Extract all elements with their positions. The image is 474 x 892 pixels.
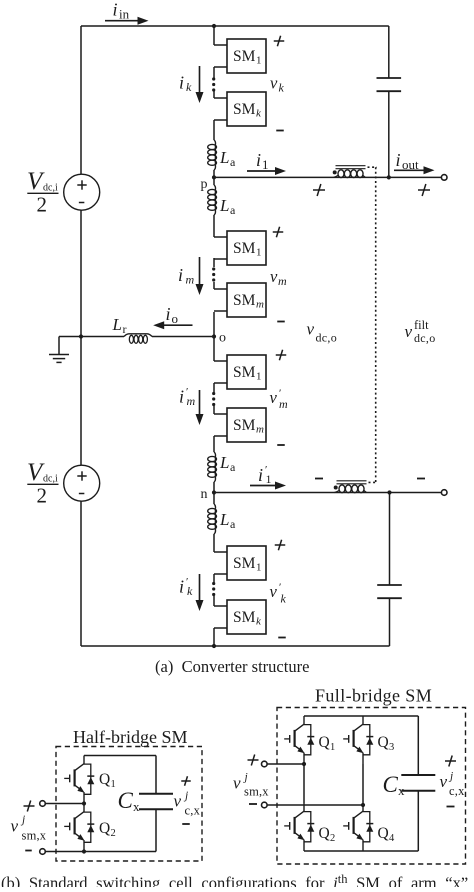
svg-text:v: v (405, 322, 413, 341)
svg-text:v: v (11, 817, 19, 836)
svg-text:v: v (440, 772, 448, 791)
svg-text:o: o (219, 331, 226, 346)
label + fb in (248, 755, 259, 766)
label + hb in (24, 801, 35, 812)
wire p rail (214, 176, 442, 178)
svg-text:in: in (119, 7, 130, 22)
submodule SM_1 arm3 (214, 355, 266, 389)
label + arm3 (276, 350, 287, 361)
inductor L_a arm2 (208, 185, 217, 215)
capacitor C_x fb (401, 775, 435, 791)
dots arm2 (212, 267, 215, 281)
svg-text:v: v (270, 267, 278, 286)
coupled filter inductor top (333, 166, 366, 178)
node fb leg1 junction (302, 762, 306, 766)
svg-text:3: 3 (389, 742, 394, 753)
svg-text:L: L (219, 148, 229, 167)
label Half-bridge SM (73, 727, 187, 747)
node n-rail capacitor junction (387, 490, 391, 494)
svg-text:i: i (258, 465, 263, 485)
submodule SM_1 arm4 (214, 546, 266, 580)
svg-text:v: v (233, 774, 241, 793)
svg-text:Q: Q (99, 771, 110, 788)
svg-text:a: a (230, 460, 236, 474)
svg-text:p: p (201, 177, 208, 192)
coupled filter inductor bottom (334, 481, 367, 493)
ground (49, 337, 69, 363)
label v_cx fb (440, 771, 466, 799)
svg-text:1: 1 (256, 561, 262, 573)
svg-text:m: m (187, 394, 196, 408)
svg-text:m: m (278, 274, 287, 288)
submodule SM_k arm p-top (214, 92, 266, 126)
wire cap branch bottom (389, 493, 391, 647)
label + hb cap (181, 776, 191, 786)
label Q3 fb (378, 734, 395, 753)
svg-text:n: n (201, 487, 208, 502)
label Q2 fb (319, 825, 336, 844)
label + vdco top (313, 184, 325, 196)
label - hb in (25, 850, 32, 852)
node n (201, 487, 217, 502)
label Q1 fb (319, 734, 336, 753)
inductor L_a arm1 (208, 140, 217, 170)
svg-text:SM: SM (233, 609, 256, 626)
inductor L_r (124, 334, 152, 344)
svg-text:1: 1 (262, 157, 269, 172)
svg-text:i: i (396, 150, 401, 170)
label - arm4 (278, 637, 286, 639)
dashed box full-bridge (277, 708, 466, 865)
svg-text:L: L (219, 196, 229, 215)
wire n rail (214, 492, 442, 494)
svg-text:L: L (219, 510, 229, 529)
transistor Q4 full-bridge (343, 803, 373, 851)
label + arm2 (273, 227, 284, 238)
node o (212, 331, 226, 346)
current arrow i_1 (247, 150, 286, 175)
node p-rail capacitor junction (387, 175, 391, 179)
svg-text:i: i (256, 150, 261, 170)
svg-text:x: x (133, 799, 140, 814)
svg-text:o: o (172, 311, 179, 326)
dots arm1 (212, 77, 215, 91)
svg-text:a: a (230, 203, 236, 217)
label v_dc,o (307, 320, 338, 345)
node hb bottom junction (82, 849, 86, 853)
svg-text:SM: SM (233, 417, 256, 434)
wire o branch (59, 336, 214, 338)
current arrow i_k (179, 66, 204, 103)
svg-text:Q: Q (378, 825, 389, 842)
svg-text:2: 2 (330, 833, 335, 844)
svg-text:a: a (230, 155, 236, 169)
dashed link bottom core (369, 481, 378, 483)
svg-text:i: i (179, 73, 184, 93)
svg-text:a: a (230, 517, 236, 531)
svg-text:r: r (123, 322, 127, 336)
dashed line v_filt (375, 167, 377, 482)
wire arm4 bus (213, 493, 215, 647)
svg-text:SM: SM (233, 555, 256, 572)
wire left bus middle (80, 210, 82, 465)
current arrow i_m (178, 257, 204, 295)
wire fb minus terminal (267, 804, 363, 806)
current arrow i_out (394, 150, 435, 174)
label L_a arm2 (219, 196, 236, 217)
submodule SM_k arm4 (214, 600, 266, 634)
svg-text:i: i (113, 0, 118, 20)
svg-text:1: 1 (111, 779, 116, 790)
submodule SM_m arm3 (214, 408, 266, 442)
svg-text:1: 1 (266, 472, 272, 486)
svg-text:sm,x: sm,x (22, 829, 47, 843)
label L_a arm4 (219, 510, 236, 531)
transistor Q2 full-bridge (284, 803, 314, 851)
node bottom bus junction (212, 644, 216, 648)
label V_dc,i/2 upper (27, 168, 59, 217)
label v_m-prime (270, 388, 289, 412)
svg-text:m: m (256, 298, 264, 310)
label - arm1 (276, 130, 284, 132)
svg-text:Half-bridge SM: Half-bridge SM (73, 727, 187, 747)
submodule SM_1 arm2 (214, 231, 266, 265)
svg-text:k: k (187, 584, 193, 598)
svg-text:Q: Q (99, 820, 110, 837)
label Full-bridge SM (315, 686, 432, 706)
current arrow i_m-prime (179, 386, 204, 425)
label - vfilt bottom (417, 478, 425, 480)
label - arm3 (277, 444, 285, 446)
label C_x fb (383, 772, 406, 798)
svg-text:2: 2 (111, 828, 116, 839)
dashed box half-bridge (56, 747, 202, 862)
label + fb cap (445, 756, 456, 767)
label L_a arm1 (219, 148, 236, 169)
node ground junction (79, 334, 83, 338)
svg-text:sm,x: sm,x (244, 785, 269, 799)
svg-text:1: 1 (256, 54, 262, 66)
svg-text:v: v (270, 74, 278, 93)
label - fb in (249, 803, 257, 805)
capacitor C bottom (377, 585, 402, 598)
svg-text:Q: Q (319, 825, 330, 842)
svg-text:(a) Converter structure: (a) Converter structure (155, 657, 309, 676)
label - fb cap (447, 806, 455, 808)
wire bottom bus (81, 645, 390, 647)
source V_dc,i/2 upper (64, 174, 100, 210)
label Q1 hb (99, 771, 116, 790)
wire cap branch top (388, 26, 390, 177)
svg-text:SM: SM (233, 240, 256, 257)
label - hb cap (182, 823, 190, 825)
label L_a arm3 (219, 453, 236, 474)
svg-text:v: v (307, 320, 315, 339)
svg-text:1: 1 (256, 370, 262, 382)
label V_dc,i/2 lower (27, 459, 59, 508)
wire fb leg2 mid (362, 764, 364, 803)
terminal out top (441, 175, 447, 181)
wire fb cap branch (417, 716, 419, 851)
dashed link top core (368, 166, 378, 168)
svg-text:filt: filt (414, 318, 429, 332)
capacitor C_x hb (139, 794, 173, 810)
svg-text:v: v (174, 792, 182, 811)
transistor Q3 full-bridge (343, 716, 373, 764)
svg-text:1: 1 (330, 742, 335, 753)
svg-text:c,x: c,x (449, 784, 465, 798)
terminal out bottom (441, 490, 447, 496)
label + arm4 (275, 540, 286, 551)
terminal hb minus (40, 849, 46, 855)
submodule SM_1 arm p-top (214, 39, 266, 73)
label v_k-prime (270, 582, 287, 606)
capacitor C top (377, 78, 402, 91)
dots arm4 (212, 582, 215, 596)
submodule SM_m arm2 (214, 283, 266, 317)
wire hb mid rail (45, 803, 84, 805)
svg-text:L: L (112, 315, 122, 334)
node p (201, 175, 217, 192)
svg-text:x: x (398, 783, 405, 798)
wire left bus lower (80, 501, 82, 646)
wire fb plus terminal (267, 763, 304, 765)
wire left bus upper (80, 26, 82, 174)
svg-text:C: C (118, 788, 134, 813)
label v_m (270, 267, 287, 288)
svg-text:i: i (179, 577, 184, 597)
current arrow i_k-prime (179, 574, 204, 611)
svg-text:i: i (166, 304, 171, 324)
svg-text:L: L (219, 453, 229, 472)
label C_x hb (118, 788, 141, 814)
svg-text:i: i (179, 387, 184, 407)
svg-text:Q: Q (319, 734, 330, 751)
svg-text:dc,o: dc,o (316, 331, 338, 345)
svg-text:C: C (383, 772, 399, 797)
inductor L_a arm3 (208, 452, 217, 482)
wire fb leg1 mid (303, 764, 305, 803)
svg-text:Q: Q (378, 734, 389, 751)
terminal fb minus (262, 802, 268, 808)
label v_dc,o filt (405, 318, 436, 345)
svg-text:dc,o: dc,o (414, 331, 436, 345)
wire arm2 bus (213, 177, 215, 336)
dots arm3 (212, 392, 215, 406)
label L_r (112, 315, 127, 336)
caption a (155, 657, 309, 676)
svg-text:k: k (279, 81, 285, 95)
caption b (1, 872, 468, 892)
svg-text:v: v (270, 582, 278, 601)
svg-text:out: out (402, 157, 419, 172)
transistor Q1 full-bridge (284, 716, 314, 764)
svg-text:SM: SM (233, 292, 256, 309)
svg-text:c,x: c,x (185, 804, 201, 818)
wire hb bottom rail (45, 851, 156, 853)
label v_sm fb (233, 772, 269, 799)
current arrow i_o (153, 304, 192, 329)
transistor Q1 half-bridge (64, 756, 94, 804)
node hb midpoint (82, 801, 86, 805)
label + vfilt top (418, 184, 430, 196)
svg-text:4: 4 (389, 833, 395, 844)
label - vdco bottom (315, 478, 323, 480)
wire fb bottom rail (304, 850, 418, 852)
label + arm1 (274, 36, 285, 47)
label v_cx hb (174, 790, 201, 818)
svg-text:2: 2 (37, 484, 48, 508)
svg-text:k: k (281, 592, 287, 606)
wire top bus (81, 25, 389, 27)
svg-text:SM: SM (233, 48, 256, 65)
label v_sm hb (11, 814, 47, 843)
wire fb top rail (304, 715, 418, 717)
label - arm2 (277, 321, 285, 323)
svg-text:1: 1 (256, 246, 262, 258)
svg-text:v: v (270, 388, 278, 407)
svg-text:SM: SM (233, 364, 256, 381)
svg-text:2: 2 (37, 193, 48, 217)
svg-text:i: i (178, 265, 183, 285)
terminal fb plus (262, 761, 268, 767)
svg-text:m: m (256, 423, 264, 435)
node fb leg2 junction (361, 803, 365, 807)
current arrow i_1-prime (250, 464, 286, 490)
svg-text:k: k (186, 80, 192, 94)
svg-text:m: m (279, 397, 288, 411)
current arrow i_in (105, 0, 149, 25)
wire arm3 bus (213, 337, 215, 493)
svg-text:m: m (186, 273, 195, 287)
label Q4 fb (378, 825, 396, 844)
svg-text:SM: SM (233, 101, 256, 118)
transistor Q2 half-bridge (64, 804, 94, 852)
terminal hb plus (40, 801, 46, 807)
label Q2 hb (99, 820, 116, 839)
label v_k (270, 74, 285, 95)
source V_dc,i/2 lower (64, 465, 100, 501)
wire hb cap branch (155, 756, 157, 852)
inductor L_a arm4 (208, 504, 217, 534)
wire arm1 bus (213, 26, 215, 177)
wire hb top rail (84, 755, 156, 757)
svg-text:Full-bridge SM: Full-bridge SM (315, 686, 432, 706)
svg-text:(b) Standard switching cell co: (b) Standard switching cell configuratio… (1, 872, 468, 887)
node top bus junction (212, 24, 216, 28)
